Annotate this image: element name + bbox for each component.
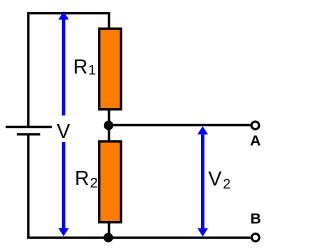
- arrow V head up: [58, 11, 69, 19]
- resistor R2: [99, 141, 121, 222]
- svg-text:R: R: [75, 168, 89, 190]
- battery V short plate: [17, 133, 40, 135]
- svg-text:2: 2: [90, 174, 98, 190]
- wire top rail: [27, 12, 110, 14]
- arrow V2 shaft: [201, 132, 204, 231]
- svg-text:1: 1: [88, 62, 96, 78]
- arrow V2 head down: [197, 228, 208, 236]
- svg-text:V: V: [57, 121, 71, 143]
- resistor R1: [99, 29, 121, 110]
- arrow V2 head up: [197, 126, 208, 134]
- wire R2 to node B: [108, 222, 110, 238]
- wire top drop to R1: [108, 12, 110, 29]
- arrow V shaft lower segment: [62, 142, 65, 231]
- svg-text:A: A: [250, 133, 261, 150]
- arrow V head down: [58, 228, 69, 236]
- wire left rail lower: [27, 134, 29, 237]
- wire node A to R2: [108, 125, 110, 141]
- terminal B open circle: [252, 234, 260, 242]
- svg-text:B: B: [250, 211, 261, 228]
- svg-text:2: 2: [223, 175, 231, 191]
- node A junction dot: [104, 121, 114, 131]
- wire left rail upper: [27, 12, 29, 127]
- wire node A to terminal A: [109, 124, 251, 126]
- svg-text:R: R: [73, 57, 87, 79]
- battery V long plate: [6, 126, 52, 128]
- svg-text:V: V: [208, 169, 222, 191]
- node B junction dot: [104, 233, 114, 243]
- wire bottom rail: [27, 236, 251, 238]
- arrow V shaft upper segment: [62, 18, 65, 116]
- wire R1 to node A: [108, 109, 110, 126]
- terminal A open circle: [252, 122, 260, 130]
